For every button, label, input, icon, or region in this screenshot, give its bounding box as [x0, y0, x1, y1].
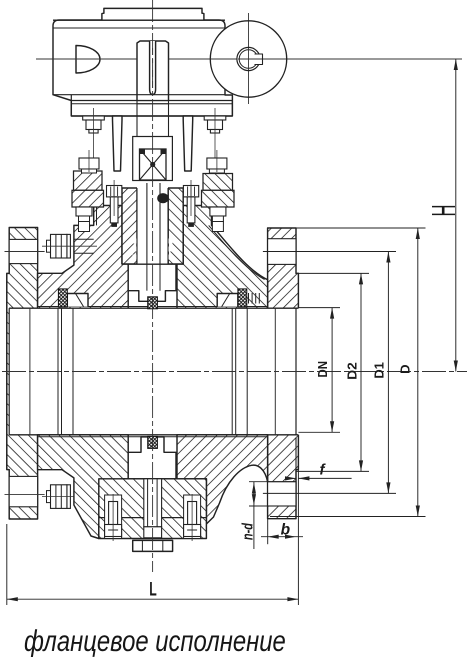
hex nut — [133, 540, 173, 551]
packing wall left — [122, 188, 137, 264]
wire gear axis — [36, 58, 462, 60]
gearbox lines over stem — [137, 94, 169, 96]
bonnet flange right — [203, 174, 233, 191]
left flange hatched — [7, 228, 38, 520]
yoke stud nut — [207, 158, 227, 169]
body joint stud & nut — [74, 489, 94, 491]
yoke leg — [183, 116, 193, 171]
svg-text:D2: D2 — [345, 362, 360, 380]
body joint stud & nut — [74, 238, 94, 240]
bonnet flange left — [74, 171, 103, 190]
gearbox cap — [102, 8, 204, 20]
svg-text:n-d: n-d — [239, 522, 256, 540]
dimension b — [267, 519, 269, 545]
stem to coupling — [136, 101, 138, 137]
coupling housing — [133, 137, 173, 181]
bore opening — [9, 308, 299, 435]
left flange bolt hole top — [9, 239, 37, 263]
body upper right hatched — [177, 206, 268, 309]
gearbox housing — [53, 20, 232, 116]
handwheel — [210, 21, 286, 97]
right flange face lines — [295, 308, 297, 435]
seat pocket left top — [67, 294, 88, 307]
seat ring — [231, 308, 233, 435]
stud slots under bonnet nuts — [79, 222, 90, 232]
ext line D bottom — [270, 516, 426, 518]
bolt under gearbox plate — [204, 116, 226, 120]
cover screw — [109, 502, 118, 525]
packing seal black — [157, 193, 169, 203]
svg-text:L: L — [149, 580, 157, 601]
hub center cross — [238, 58, 262, 60]
wire pipe axis — [2, 371, 467, 373]
left flange bolt hole bottom — [9, 476, 37, 506]
body inner wall line above bore — [38, 306, 268, 308]
seat pocket right top — [217, 294, 238, 307]
D-shaped port — [76, 46, 100, 74]
body upper left hatched — [38, 206, 129, 309]
right flange hatched — [268, 228, 299, 519]
dimension DN — [331, 308, 333, 433]
raised face lines — [295, 438, 297, 519]
ext line D1 bottom — [263, 492, 396, 494]
cover screw — [188, 502, 197, 525]
bonnet stud nut lower — [210, 207, 226, 216]
svg-text:D1: D1 — [371, 362, 386, 379]
body inner wall line below bore — [38, 436, 268, 438]
dimension L — [6, 524, 8, 605]
packing ring notches — [133, 239, 138, 244]
svg-text:b: b — [281, 522, 291, 539]
gland screw — [183, 186, 198, 197]
seat seals cross-hatched — [58, 289, 67, 307]
dimension f — [288, 477, 296, 479]
svg-text:H: H — [425, 205, 462, 217]
yoke stud nut — [79, 158, 99, 169]
cover screw channels — [105, 495, 122, 539]
wire main vertical axis — [152, 0, 154, 572]
stem upper — [137, 41, 169, 101]
bolt under gearbox plate — [83, 116, 105, 120]
stem seal black bottom — [148, 436, 158, 448]
body inner edge lines — [96, 207, 98, 225]
seat pocket left bottom — [67, 437, 88, 450]
packing wall right — [168, 188, 183, 264]
bottom cover hatched — [99, 479, 207, 539]
handwheel keyway — [255, 54, 263, 65]
handwheel center lines — [211, 58, 286, 60]
coupling corner seals — [140, 149, 146, 154]
ext line D2 top — [296, 272, 369, 274]
seat springs right — [248, 293, 250, 304]
seat pocket right bottom — [217, 437, 238, 450]
body bottom right hatched — [177, 435, 268, 524]
bottom trunnion block — [128, 437, 176, 479]
ext line DN top — [298, 307, 340, 309]
ext line D top — [270, 227, 426, 229]
body bottom left hatched — [38, 435, 129, 539]
wire handwheel axis — [248, 13, 250, 104]
seat ring — [57, 308, 59, 435]
dimension D2 — [360, 273, 362, 471]
stem T-block — [128, 264, 176, 301]
cover interface line — [99, 517, 207, 519]
dimension D1 — [387, 252, 389, 494]
gland screw — [107, 186, 122, 197]
dimension D — [417, 228, 419, 517]
right flange bolt hole bottom — [268, 482, 296, 506]
hub lines in bore — [29, 308, 31, 435]
yoke leg — [113, 116, 123, 171]
svg-text:DN: DN — [315, 361, 330, 378]
stem lower white channel — [137, 183, 168, 264]
ext line D2 bottom — [296, 470, 369, 472]
svg-text:D: D — [397, 365, 412, 374]
stem seal black top — [148, 297, 158, 309]
ext line DN bottom — [298, 431, 340, 433]
dimension H — [455, 59, 457, 372]
bonnet stud nut lower — [76, 207, 92, 216]
handwheel hub — [237, 47, 260, 70]
left flange face lines — [8, 308, 10, 435]
X-box coupling — [140, 149, 167, 180]
dimension n-d — [253, 482, 255, 549]
bore walls — [9, 307, 298, 309]
stem slot — [150, 41, 156, 95]
right flange bolt hole top — [268, 239, 296, 265]
gearbox body lines — [53, 19, 225, 21]
ext line D1 top — [263, 251, 396, 253]
bottom stem & nut — [144, 479, 162, 527]
